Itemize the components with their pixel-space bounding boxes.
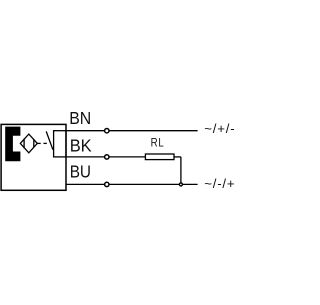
proximity sensor diamond U1 — [20, 134, 37, 153]
contact block rectangle — [54, 131, 66, 157]
svg-text:BK: BK — [70, 135, 92, 155]
diamond left chord — [23, 139, 25, 149]
sensing face bracket (solid) — [5, 127, 20, 162]
wire vertical drop — [180, 157, 182, 185]
wire BU — [66, 183, 198, 185]
terminal circle BN — [105, 129, 109, 133]
svg-text:~/-/+: ~/-/+ — [204, 176, 235, 191]
svg-text:L: L — [158, 136, 164, 150]
wire from resistor to corner — [174, 156, 181, 158]
junction node circle — [179, 183, 182, 186]
switch blade Q — [46, 131, 53, 149]
svg-text:~/+/-: ~/+/- — [204, 121, 234, 136]
diamond right chord — [33, 139, 35, 147]
svg-text:R: R — [151, 136, 158, 150]
wire BN — [66, 130, 198, 132]
svg-text:BN: BN — [69, 108, 91, 128]
actuation link (dashed) — [37, 142, 40, 144]
terminal circle BK — [105, 155, 109, 159]
terminal circle BU — [105, 182, 109, 186]
wire BK — [66, 156, 145, 158]
resistor RL — [145, 154, 174, 160]
svg-text:BU: BU — [70, 162, 91, 182]
sensor body box — [1, 124, 66, 190]
